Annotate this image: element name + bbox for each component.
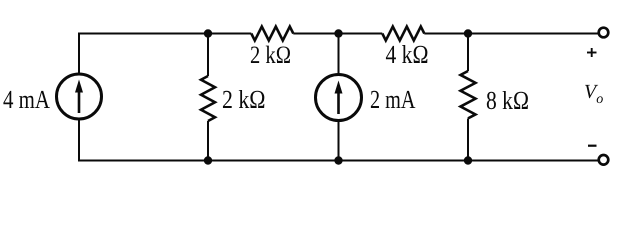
current source I2 2 mA — [316, 75, 362, 121]
resistor R2 4 kOhm (top right series) — [382, 27, 424, 41]
junction node B — [334, 29, 342, 37]
junction node A — [204, 29, 212, 37]
wire node B to resistor R2 — [339, 33, 383, 35]
svg-text:2 kΩ: 2 kΩ — [222, 85, 266, 114]
wire node C down to resistor R4 — [467, 34, 469, 72]
label minus sign — [588, 145, 597, 147]
junction node D — [204, 156, 212, 164]
wire node A down to resistor R3 — [207, 34, 209, 77]
wire resistor R3 down to node D — [207, 121, 209, 161]
wire resistor R1 to node B — [293, 33, 338, 35]
svg-text:4 kΩ: 4 kΩ — [386, 40, 429, 69]
resistor R3 2 kOhm (shunt) — [201, 76, 215, 121]
junction node F — [464, 156, 472, 164]
junction node C — [464, 29, 472, 37]
terminal minus (open circle) — [599, 155, 609, 165]
svg-text:4 mA: 4 mA — [3, 85, 50, 114]
wire source I2 down to node E — [338, 121, 340, 161]
wire bottom rail node D to node E — [208, 160, 339, 162]
wire node B down to source I2 — [338, 34, 340, 75]
label plus sign — [587, 48, 597, 57]
wire left branch: top-left corner from source up and across to node A — [79, 34, 208, 75]
wire resistor R4 down to node F — [467, 119, 469, 161]
wire node A to resistor R1 — [208, 33, 251, 35]
wire resistor R2 to node C — [424, 33, 468, 35]
terminal plus (open circle) — [599, 28, 609, 38]
wire left branch bottom: from source down and across to node D — [79, 119, 208, 161]
current source I1 4 mA — [57, 74, 102, 119]
wire bottom rail node E to node F — [339, 160, 469, 162]
resistor R4 8 kOhm (shunt output) — [461, 71, 476, 118]
wire node F to minus terminal — [468, 160, 598, 162]
resistor R1 2 kOhm (top left series) — [251, 27, 293, 41]
wire node C to plus terminal — [468, 33, 598, 35]
junction node E — [334, 156, 342, 164]
svg-text:8 kΩ: 8 kΩ — [486, 86, 529, 115]
svg-text:Vo: Vo — [584, 81, 603, 107]
svg-text:2 kΩ: 2 kΩ — [250, 42, 291, 69]
svg-text:2 mA: 2 mA — [370, 85, 416, 114]
